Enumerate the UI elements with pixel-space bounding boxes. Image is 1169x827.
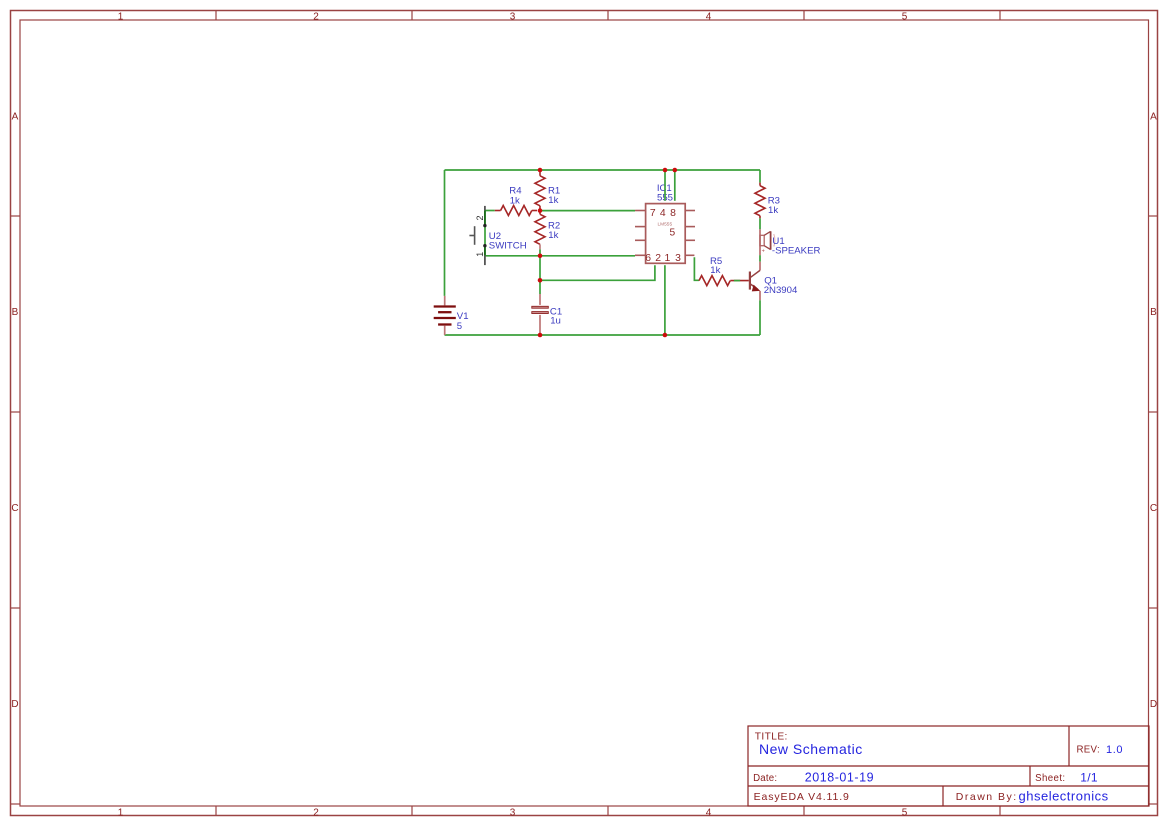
svg-text:5: 5	[669, 228, 675, 239]
wire R4 left to switch	[485, 210, 495, 212]
svg-text:1k: 1k	[768, 205, 778, 216]
svg-text:ghselectronics: ghselectronics	[1019, 789, 1109, 804]
wire GND bottom rail	[445, 334, 761, 336]
resistor R1	[535, 170, 545, 211]
svg-text:EasyEDA V4.11.9: EasyEDA V4.11.9	[754, 791, 850, 803]
svg-text:D: D	[1150, 699, 1157, 710]
svg-text:6: 6	[645, 253, 651, 264]
wire switch column	[484, 211, 486, 256]
transistor Q1	[750, 262, 760, 301]
svg-text:1: 1	[475, 252, 485, 257]
speaker U1	[760, 229, 775, 255]
wire VCC top rail	[445, 169, 761, 171]
wire R3 to speaker	[759, 218, 761, 229]
svg-text:LM555: LM555	[657, 221, 672, 227]
wire R5 to Q1 base	[734, 280, 740, 282]
svg-text:1k: 1k	[548, 195, 558, 206]
svg-text:-SPEAKER: -SPEAKER	[772, 245, 821, 256]
svg-text:3: 3	[510, 807, 516, 818]
wire speaker to Q1 collector	[759, 255, 761, 262]
svg-text:4: 4	[706, 12, 712, 23]
wire mid rail to IC pin6	[485, 255, 635, 257]
wire control node to IC pin2	[540, 265, 655, 280]
svg-text:D: D	[11, 699, 18, 710]
svg-text:1k: 1k	[710, 265, 720, 276]
wire IC pin1 to GND rail	[664, 265, 666, 335]
label V1	[457, 311, 469, 332]
svg-text:B: B	[12, 307, 19, 318]
svg-text:REV:: REV:	[1077, 745, 1100, 756]
svg-text:5: 5	[457, 321, 462, 332]
svg-text:C: C	[11, 503, 18, 514]
wire node junction to IC pin7	[540, 210, 635, 212]
capacitor C1	[532, 294, 549, 335]
label R5	[710, 256, 722, 276]
resistor R5	[699, 276, 749, 286]
svg-text:1: 1	[665, 253, 671, 264]
svg-text:B: B	[1150, 307, 1157, 318]
title block (decorative)	[748, 726, 1149, 806]
svg-text:New Schematic: New Schematic	[759, 741, 863, 757]
junction node C1/pin2	[538, 278, 543, 283]
svg-text:7: 7	[650, 208, 656, 219]
svg-text:4: 4	[706, 807, 712, 818]
svg-text:3: 3	[510, 12, 516, 23]
wire R2 bottom to node	[539, 249, 541, 256]
svg-text:C: C	[1150, 503, 1157, 514]
svg-text:4: 4	[660, 208, 666, 219]
junction node R1/R2/R4	[538, 208, 543, 213]
svg-text:2018-01-19: 2018-01-19	[805, 770, 874, 784]
svg-text:2: 2	[313, 807, 319, 818]
label IC1	[657, 183, 673, 203]
label R3	[768, 196, 780, 216]
junction node C1/GND	[538, 333, 543, 338]
label U1	[772, 236, 821, 256]
junction node VCC/pin8	[673, 168, 678, 173]
label Q1	[764, 276, 798, 297]
svg-text:Date:: Date:	[753, 773, 777, 784]
wire VCC to IC pin8	[674, 170, 676, 201]
svg-text:5: 5	[902, 807, 908, 818]
svg-text:8: 8	[670, 208, 676, 219]
label R1	[548, 186, 560, 206]
op-amp/ic IC1 555	[635, 204, 695, 264]
junction node R2/C1/pin6	[538, 254, 543, 259]
wire VCC to IC pin4	[664, 170, 666, 201]
svg-text:+: +	[762, 248, 765, 254]
svg-text:1.0: 1.0	[1106, 744, 1123, 756]
pin numbers 7 4 8 of IC1	[650, 208, 676, 219]
svg-text:2: 2	[655, 253, 661, 264]
junction node VCC/R1	[538, 168, 543, 173]
wire Q1 emitter to GND rail	[759, 300, 761, 335]
svg-text:1k: 1k	[510, 195, 520, 206]
switch U2	[469, 206, 486, 265]
svg-text:1/1: 1/1	[1080, 770, 1098, 784]
svg-text:1: 1	[118, 12, 124, 23]
svg-text:A: A	[12, 111, 19, 122]
label U2	[489, 231, 527, 251]
wire IC pin3 to R5	[694, 257, 699, 280]
svg-text:1k: 1k	[548, 230, 558, 241]
junction node VCC/pin4	[663, 168, 668, 173]
svg-text:2: 2	[475, 215, 485, 220]
resistor R2	[535, 211, 545, 250]
svg-text:A: A	[1150, 111, 1157, 122]
svg-text:Sheet:: Sheet:	[1035, 773, 1065, 784]
svg-text:SWITCH: SWITCH	[489, 240, 527, 251]
wire C1 column	[539, 256, 541, 294]
resistor R3	[755, 183, 765, 219]
label C1	[550, 306, 562, 326]
junction node pin1/GND	[663, 333, 668, 338]
svg-text:2: 2	[313, 12, 319, 23]
svg-text:5: 5	[902, 12, 908, 23]
svg-text:2N3904: 2N3904	[764, 285, 798, 296]
resistor R4	[495, 206, 537, 216]
wire right rail to R3	[759, 170, 761, 183]
wire left rail V1 top	[444, 170, 446, 296]
svg-text:1u: 1u	[550, 316, 561, 327]
svg-text:3: 3	[675, 253, 681, 264]
pin numbers 6 2 1 3 of IC1	[645, 253, 681, 264]
battery V1	[434, 296, 456, 335]
svg-text:1: 1	[118, 807, 124, 818]
svg-text:Drawn By:: Drawn By:	[956, 791, 1018, 803]
label R2	[548, 221, 560, 241]
label R4	[509, 186, 522, 207]
